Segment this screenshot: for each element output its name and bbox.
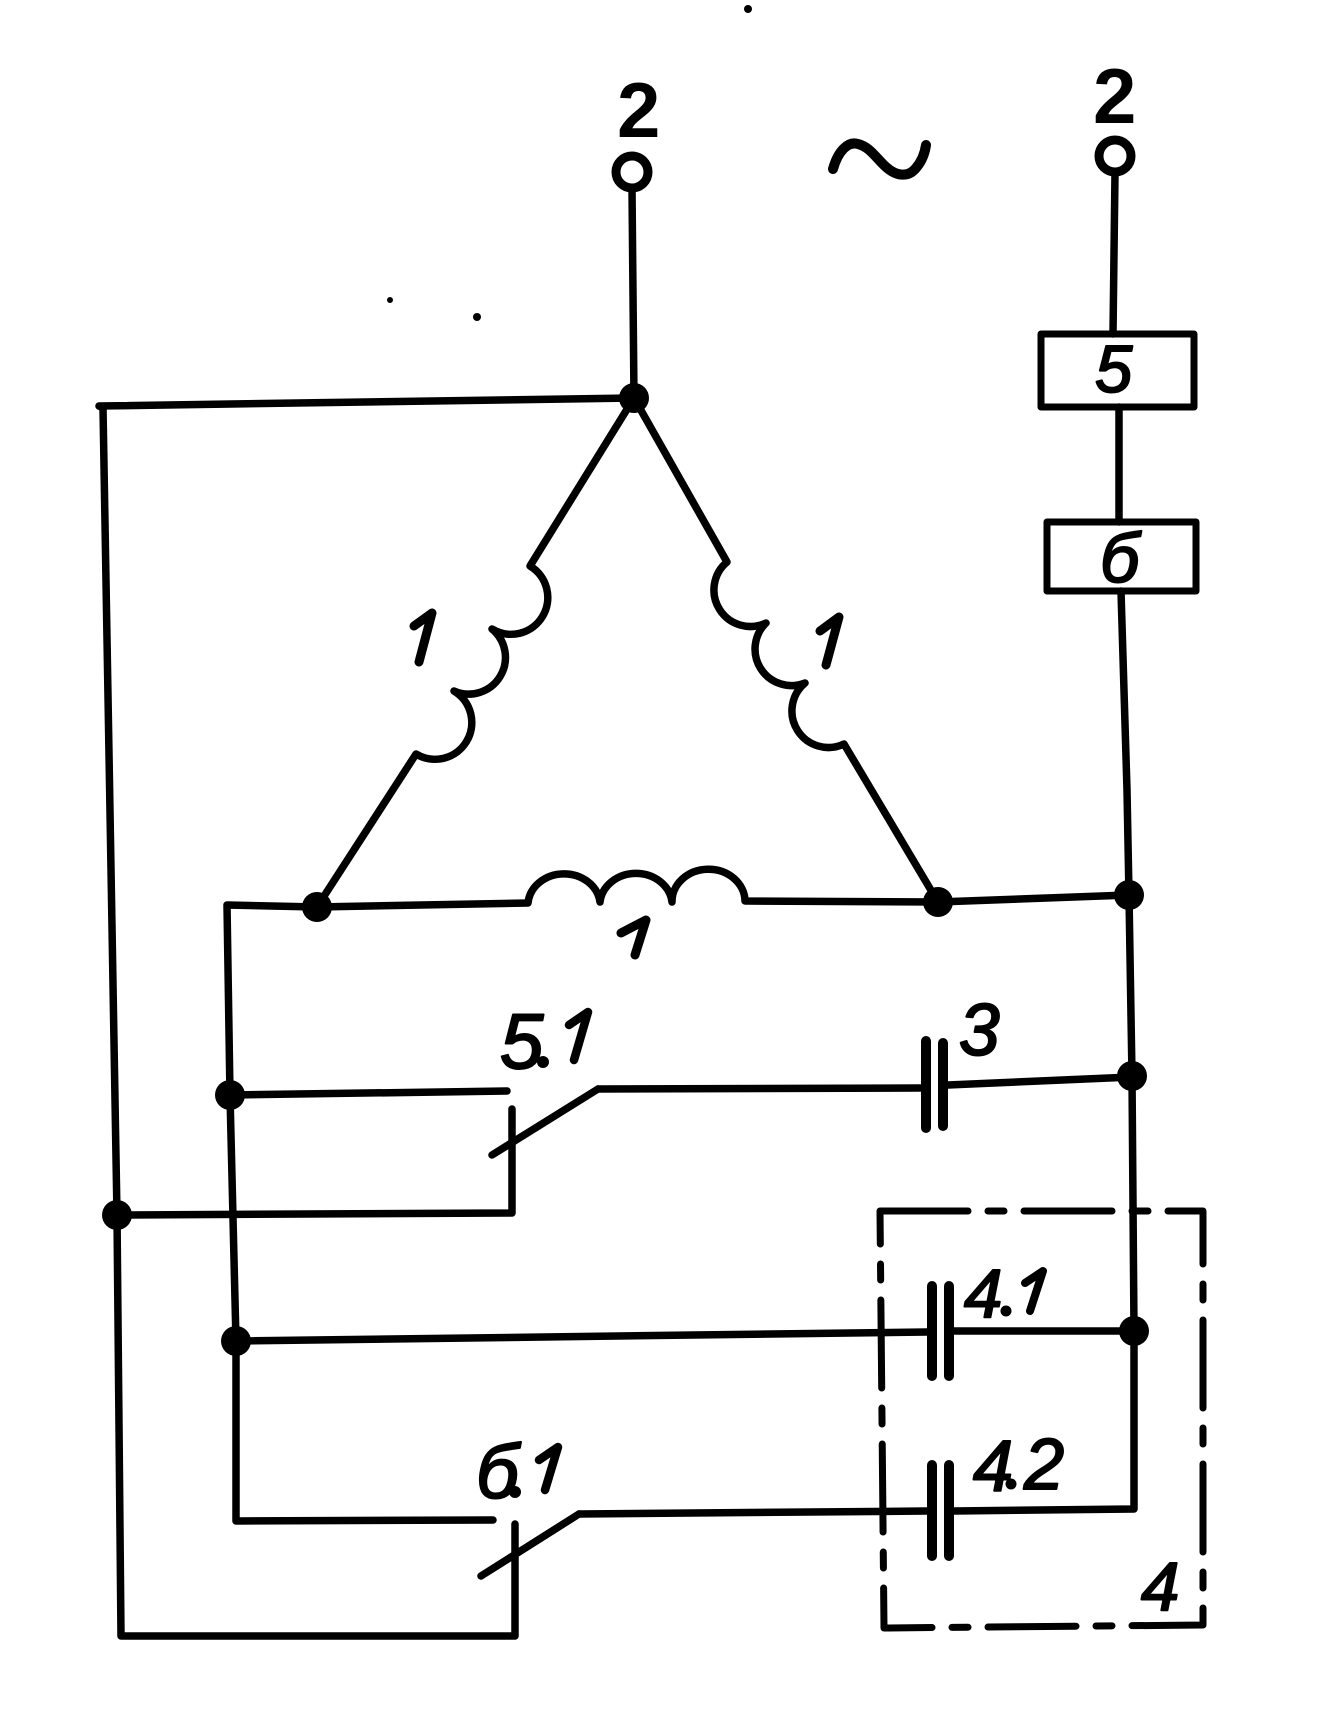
node delta bottom-left vertex — [302, 892, 332, 922]
scan speck — [473, 313, 481, 321]
node tap for capacitor 4.1 — [221, 1326, 251, 1356]
capacitor C4.1 — [927, 1286, 937, 1376]
scan speck — [744, 5, 752, 13]
wire box6 down right main vertical — [1121, 591, 1134, 1331]
node apex junction — [619, 383, 649, 413]
wire node 4.1 down to cap 4.2 right — [954, 1331, 1134, 1511]
winding 1 (bottom) — [317, 869, 938, 907]
terminal label 2 (left) — [617, 66, 660, 154]
wire tap to switch 5.1 fixed contact — [230, 1091, 507, 1095]
terminal label 2 (right) — [1093, 52, 1136, 140]
label 1 (right winding) — [820, 617, 839, 665]
label 5 — [1095, 332, 1133, 407]
label 1 (left winding) — [414, 613, 432, 662]
label 4.2 — [973, 1425, 1064, 1507]
wire apex to top-left corner — [99, 398, 634, 408]
AC source symbol ~ — [833, 143, 926, 174]
svg-text:2: 2 — [1093, 52, 1136, 140]
switch 5.1 pivot stub — [117, 1109, 512, 1215]
terminal circle 2 (right) — [1099, 140, 1131, 172]
wire tap to capacitor 4.1 — [236, 1332, 927, 1341]
svg-text:5: 5 — [1095, 332, 1133, 407]
svg-text:5: 5 — [500, 997, 544, 1085]
label 1 (bottom winding) — [621, 920, 646, 955]
capacitor unit 4 dash-dot box — [880, 1211, 1203, 1628]
svg-text:4: 4 — [1141, 1548, 1179, 1625]
scan speck — [387, 297, 393, 303]
svg-text:2: 2 — [1023, 1425, 1064, 1505]
svg-text:4: 4 — [973, 1427, 1013, 1507]
wire switch 5.1 to capacitor 3 — [598, 1088, 920, 1089]
wire switch 6.1 to capacitor 4.2 — [579, 1511, 927, 1514]
wire terminal-2-left to apex — [632, 189, 634, 399]
wire left inner vertical from vertex down to switch 6.1 contact — [227, 905, 493, 1521]
box 6 (relay) — [1047, 522, 1196, 591]
switch 6.1 blade — [481, 1514, 579, 1576]
wire capacitor 3 to right main vertical — [948, 1077, 1132, 1085]
label 3 — [959, 990, 1000, 1071]
label 6.1 — [476, 1430, 521, 1515]
node tap for switch 5.1 — [215, 1080, 245, 1110]
node bottom-right junction — [1114, 880, 1144, 910]
wire box5 to box6 — [1115, 407, 1123, 522]
node on left outer line (5.1 pivot feed) — [102, 1200, 132, 1230]
capacitor C3 — [921, 1041, 931, 1128]
wire capacitor 4.1 to right vertical — [954, 1327, 1134, 1335]
capacitor C4.2 — [927, 1465, 937, 1556]
svg-text:2: 2 — [617, 66, 660, 154]
node delta bottom-right vertex — [923, 887, 953, 917]
label 5.1 — [500, 997, 544, 1085]
wire bottom side to right main vertical — [938, 895, 1129, 902]
wire left outer line down and bottom run to switch 6.1 pivot — [103, 408, 515, 1636]
svg-text:б: б — [476, 1430, 521, 1515]
wire terminal-2-right to box 5 — [1113, 173, 1115, 334]
terminal circle 2 (left) — [616, 156, 648, 188]
label 4 — [1141, 1548, 1179, 1625]
svg-text:4: 4 — [964, 1255, 1002, 1332]
node cap 4.1 junction — [1119, 1316, 1149, 1346]
svg-text:3: 3 — [959, 990, 1000, 1071]
label 4.1 — [964, 1255, 1002, 1332]
winding 1 (left leg) — [317, 398, 634, 907]
svg-text:б: б — [1100, 519, 1142, 597]
label 6 — [1100, 519, 1142, 597]
switch 5.1 blade — [492, 1089, 598, 1155]
box 5 (fuse/relay) — [1041, 334, 1194, 407]
node cap3 junction — [1117, 1061, 1147, 1091]
winding 1 (right leg) — [634, 398, 938, 902]
